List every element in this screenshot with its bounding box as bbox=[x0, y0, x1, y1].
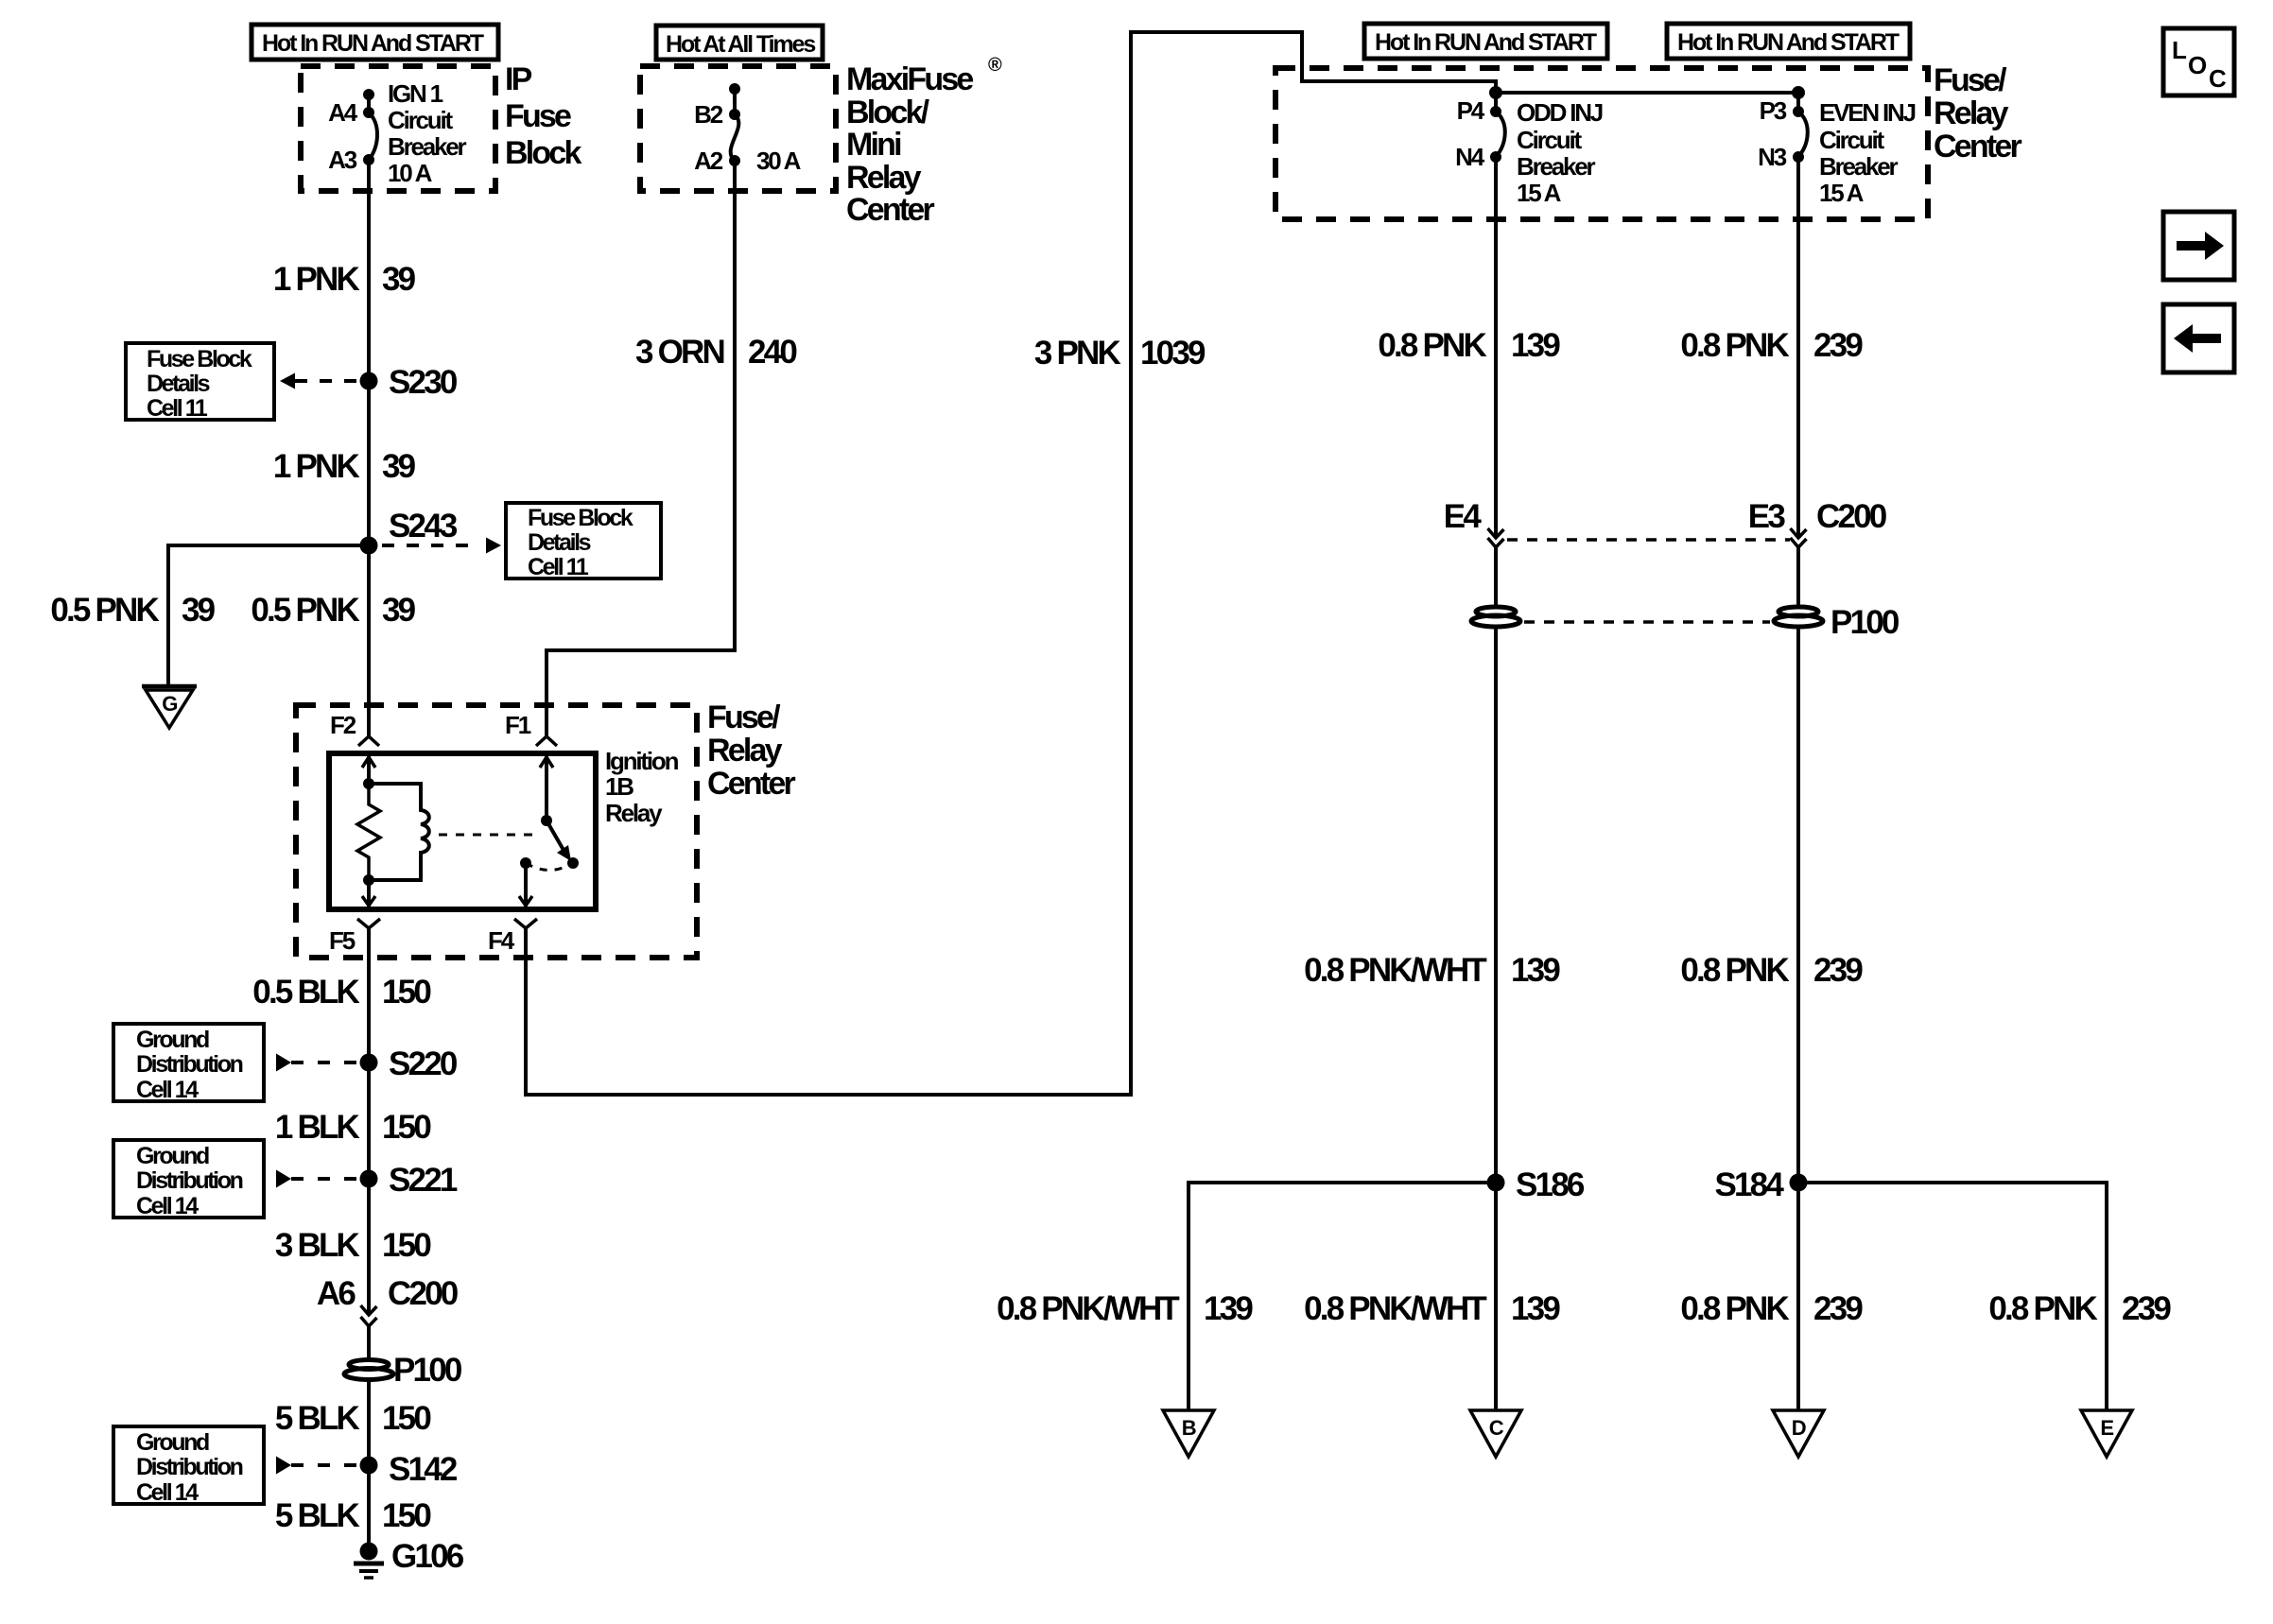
svg-text:Block/: Block/ bbox=[846, 95, 930, 130]
svg-text:Fuse Block: Fuse Block bbox=[528, 505, 633, 531]
reference box Ground Distribution Cell 14 (S142) bbox=[113, 1426, 264, 1506]
svg-text:L: L bbox=[2172, 36, 2187, 64]
svg-text:1039: 1039 bbox=[1140, 335, 1206, 371]
dashed grommet tie P100 bbox=[1524, 620, 1770, 624]
svg-text:150: 150 bbox=[382, 1109, 431, 1146]
svg-text:150: 150 bbox=[382, 1400, 431, 1437]
svg-text:139: 139 bbox=[1511, 1290, 1560, 1327]
wire E4 to P100 bbox=[1494, 547, 1498, 608]
svg-text:15 A: 15 A bbox=[1819, 179, 1865, 207]
svg-text:G: G bbox=[162, 692, 177, 716]
svg-text:Cell 14: Cell 14 bbox=[136, 1193, 199, 1219]
wire P100 to S142 bbox=[367, 1379, 371, 1465]
wire A3 to S230 bbox=[367, 160, 371, 381]
wire F2 into relay with up arrow bbox=[362, 753, 375, 784]
grommet P100 (even) bbox=[1774, 604, 1900, 641]
svg-text:F2: F2 bbox=[330, 711, 356, 739]
MaxiFuse Block / Mini Relay Center dashed outline bbox=[640, 66, 836, 191]
svg-text:IP: IP bbox=[505, 61, 532, 97]
svg-text:Fuse/: Fuse/ bbox=[707, 700, 781, 735]
dashed connector tie C200 bbox=[1507, 538, 1790, 542]
svg-text:®: ® bbox=[988, 55, 1002, 76]
svg-text:3 BLK: 3 BLK bbox=[275, 1227, 360, 1264]
node coil top junction bbox=[363, 778, 374, 789]
header box: Hot In RUN And START (Even Inj) bbox=[1667, 24, 1910, 59]
header box: Hot At All Times (MaxiFuse) bbox=[656, 26, 823, 60]
svg-text:Ignition: Ignition bbox=[605, 747, 679, 775]
svg-text:P4: P4 bbox=[1457, 96, 1485, 125]
svg-text:150: 150 bbox=[382, 1497, 431, 1534]
wire switch to F4 with down arrow bbox=[519, 863, 532, 909]
node S243 bbox=[360, 508, 458, 555]
svg-text:39: 39 bbox=[382, 261, 416, 298]
node odd breaker feed junction bbox=[1489, 86, 1502, 99]
wire N4 to E4 connector bbox=[1494, 157, 1498, 538]
wire label 0.8 PNK/WHT 139 (B) bbox=[997, 1290, 1253, 1327]
svg-text:239: 239 bbox=[1813, 952, 1863, 989]
svg-text:F5: F5 bbox=[329, 926, 356, 955]
node S220 bbox=[360, 1045, 458, 1082]
svg-text:Ground: Ground bbox=[136, 1143, 209, 1169]
svg-text:F4: F4 bbox=[488, 926, 515, 955]
svg-text:E4: E4 bbox=[1444, 498, 1483, 535]
svg-text:39: 39 bbox=[382, 448, 416, 485]
svg-text:N3: N3 bbox=[1758, 143, 1787, 171]
wire N3 to E3 connector bbox=[1796, 157, 1800, 538]
svg-text:E3: E3 bbox=[1748, 498, 1786, 535]
wire S221 to C200 bbox=[367, 1179, 371, 1315]
svg-text:E: E bbox=[2100, 1416, 2113, 1440]
svg-text:B2: B2 bbox=[694, 100, 723, 129]
node coil bottom junction bbox=[363, 874, 374, 886]
dashed arrow S230 to Fuse Block Details bbox=[280, 373, 359, 389]
label Fuse/ Relay Center (right) bbox=[1934, 62, 2021, 164]
node even breaker feed bbox=[1792, 86, 1805, 99]
svg-text:0.8 PNK: 0.8 PNK bbox=[1680, 952, 1789, 989]
off-page triangle B bbox=[1163, 1410, 1214, 1457]
wire junction to even breaker bbox=[1496, 91, 1798, 95]
wire label 1 PNK 39 bbox=[273, 261, 416, 298]
svg-text:Relay: Relay bbox=[605, 799, 663, 827]
svg-text:C200: C200 bbox=[388, 1275, 459, 1312]
switch contact (right) bbox=[567, 857, 579, 869]
svg-text:5 BLK: 5 BLK bbox=[275, 1400, 360, 1437]
svg-text:B: B bbox=[1182, 1416, 1196, 1440]
node S221 bbox=[360, 1162, 458, 1199]
svg-text:0.8 PNK: 0.8 PNK bbox=[1680, 1290, 1789, 1327]
svg-text:S142: S142 bbox=[389, 1451, 458, 1488]
svg-text:S230: S230 bbox=[389, 364, 458, 401]
svg-text:S221: S221 bbox=[389, 1162, 458, 1199]
svg-text:150: 150 bbox=[382, 974, 431, 1011]
svg-text:Cell 11: Cell 11 bbox=[528, 554, 589, 580]
legend LOC box bbox=[2163, 28, 2234, 95]
switch contact (left, F4) bbox=[520, 857, 531, 869]
switch common contact bbox=[541, 815, 552, 826]
svg-text:Ground: Ground bbox=[136, 1027, 209, 1053]
legend left-arrow box bbox=[2163, 304, 2234, 372]
svg-text:D: D bbox=[1792, 1416, 1806, 1440]
svg-text:P3: P3 bbox=[1760, 96, 1787, 125]
svg-text:A4: A4 bbox=[328, 98, 358, 127]
wire label 0.8 PNK 239 (E) bbox=[1988, 1290, 2171, 1327]
off-page triangle C bbox=[1470, 1410, 1521, 1457]
svg-text:Circuit: Circuit bbox=[1819, 126, 1884, 154]
svg-text:1B: 1B bbox=[605, 772, 633, 801]
svg-text:Mini: Mini bbox=[846, 127, 901, 163]
connector C200 chevrons (E3) bbox=[1791, 528, 1807, 547]
reference box Ground Distribution Cell 14 (S221) bbox=[113, 1140, 264, 1219]
svg-text:C: C bbox=[1489, 1416, 1504, 1440]
svg-text:Distribution: Distribution bbox=[136, 1051, 243, 1078]
legend right-arrow box bbox=[2163, 212, 2234, 280]
node S230 bbox=[360, 364, 458, 401]
switch blade with arrowhead bbox=[547, 821, 571, 861]
dashed arrow S221 reference bbox=[276, 1170, 359, 1188]
svg-text:F1: F1 bbox=[505, 711, 531, 739]
svg-text:0.8 PNK: 0.8 PNK bbox=[1680, 327, 1789, 364]
svg-text:Hot In RUN And START: Hot In RUN And START bbox=[1677, 29, 1900, 56]
svg-text:A2: A2 bbox=[694, 147, 723, 175]
svg-text:Relay: Relay bbox=[846, 160, 922, 196]
wire S142 to G106 bbox=[367, 1465, 371, 1551]
svg-text:0.5 BLK: 0.5 BLK bbox=[252, 974, 359, 1011]
wire S184 to D bbox=[1796, 1183, 1800, 1410]
Fuse/Relay Center dashed outline (relay) bbox=[296, 705, 697, 958]
svg-text:Center: Center bbox=[707, 766, 795, 802]
svg-text:EVEN INJ: EVEN INJ bbox=[1819, 98, 1916, 127]
svg-text:30 A: 30 A bbox=[756, 147, 802, 175]
svg-text:10 A: 10 A bbox=[388, 159, 433, 187]
off-page triangle E bbox=[2081, 1410, 2132, 1457]
node S186 bbox=[1487, 1166, 1585, 1203]
ground G106 bbox=[354, 1538, 464, 1578]
svg-text:MaxiFuse: MaxiFuse bbox=[846, 61, 973, 97]
node S184 bbox=[1714, 1166, 1807, 1203]
svg-text:Circuit: Circuit bbox=[1517, 126, 1582, 154]
svg-text:S184: S184 bbox=[1714, 1166, 1784, 1203]
svg-text:Fuse/: Fuse/ bbox=[1934, 62, 2007, 98]
svg-text:N4: N4 bbox=[1455, 143, 1485, 171]
svg-text:1 BLK: 1 BLK bbox=[275, 1109, 360, 1146]
header box: Hot In RUN And START (IP Fuse Block) bbox=[252, 25, 498, 60]
svg-text:Center: Center bbox=[1934, 129, 2021, 164]
dashed arrow S220 reference bbox=[276, 1054, 359, 1072]
svg-text:S220: S220 bbox=[389, 1045, 458, 1082]
grommet P100 (left) bbox=[344, 1352, 462, 1389]
wire label 0.8 PNK 139 bbox=[1378, 327, 1560, 364]
reference box Ground Distribution Cell 14 (S220) bbox=[113, 1024, 264, 1103]
reference box Fuse Block Details Cell 11 (left) bbox=[126, 343, 274, 422]
wire P100 to S186 bbox=[1494, 626, 1498, 1183]
svg-text:39: 39 bbox=[382, 592, 416, 629]
svg-text:Center: Center bbox=[846, 192, 934, 228]
svg-text:0.8 PNK: 0.8 PNK bbox=[1988, 1290, 2097, 1327]
svg-text:G106: G106 bbox=[391, 1538, 464, 1575]
value label IGN 1 Circuit Breaker 10 A bbox=[388, 79, 467, 187]
wire label 0.8 PNK 239 bbox=[1680, 952, 1863, 989]
svg-text:239: 239 bbox=[2122, 1290, 2171, 1327]
connector chevron F5 bbox=[357, 919, 380, 928]
svg-text:0.8 PNK/WHT: 0.8 PNK/WHT bbox=[1304, 952, 1486, 989]
svg-text:150: 150 bbox=[382, 1227, 431, 1264]
wire label 0.5 BLK 150 bbox=[252, 974, 431, 1011]
svg-text:Relay: Relay bbox=[707, 733, 783, 769]
svg-text:0.8 PNK/WHT: 0.8 PNK/WHT bbox=[1304, 1290, 1486, 1327]
svg-text:Cell 14: Cell 14 bbox=[136, 1479, 199, 1506]
ground triangle G bbox=[142, 686, 197, 728]
connector chevron F4 bbox=[514, 919, 537, 928]
svg-text:Relay: Relay bbox=[1934, 95, 2009, 131]
wire F1 into relay with up arrow bbox=[540, 753, 553, 821]
circuit breaker ODD INJ (15 A) bbox=[1490, 93, 1505, 163]
svg-text:Distribution: Distribution bbox=[136, 1167, 243, 1194]
svg-text:39: 39 bbox=[182, 592, 216, 629]
svg-text:Details: Details bbox=[147, 371, 210, 397]
svg-text:139: 139 bbox=[1511, 952, 1560, 989]
wire A2 to F1 (3 ORN 240) bbox=[547, 161, 735, 735]
svg-text:Hot At All Times: Hot At All Times bbox=[666, 31, 815, 58]
svg-text:Breaker: Breaker bbox=[1517, 152, 1596, 181]
connector chevron F1 bbox=[536, 736, 557, 746]
wire P100 to S184 bbox=[1796, 626, 1800, 1183]
svg-text:Breaker: Breaker bbox=[1819, 152, 1899, 181]
svg-text:Block: Block bbox=[505, 135, 581, 171]
dashed arrow S142 reference bbox=[276, 1457, 359, 1475]
value label EVEN INJ Circuit Breaker 15 A bbox=[1819, 98, 1916, 207]
svg-text:P100: P100 bbox=[393, 1352, 462, 1389]
wire S186 branch to B bbox=[1189, 1183, 1496, 1410]
svg-text:O: O bbox=[2188, 51, 2207, 79]
pin A6 / connector C200 label bbox=[317, 1275, 459, 1312]
wire label 1 BLK 150 bbox=[275, 1109, 431, 1146]
wire S186 to C bbox=[1494, 1183, 1498, 1410]
svg-text:IGN 1: IGN 1 bbox=[388, 79, 443, 108]
wire E3 to P100 bbox=[1796, 547, 1800, 608]
svg-text:15 A: 15 A bbox=[1517, 179, 1562, 207]
dashed actuation link bbox=[439, 834, 541, 837]
IP Fuse Block dashed outline bbox=[301, 66, 495, 191]
wire label 0.8 PNK/WHT 139 bbox=[1304, 952, 1560, 989]
wire S243 to relay F2 bbox=[367, 545, 371, 735]
svg-text:Breaker: Breaker bbox=[388, 132, 467, 161]
wire C200 to P100 bbox=[367, 1326, 371, 1361]
label Ignition 1B Relay bbox=[605, 747, 679, 827]
svg-text:A6: A6 bbox=[317, 1275, 356, 1312]
svg-text:1 PNK: 1 PNK bbox=[273, 448, 360, 485]
dashed travel arc bbox=[526, 863, 573, 871]
svg-text:Cell 14: Cell 14 bbox=[136, 1077, 199, 1103]
svg-text:Distribution: Distribution bbox=[136, 1454, 243, 1480]
label MaxiFuse (R) Block/ Mini Relay Center bbox=[846, 55, 1002, 228]
svg-text:Hot In RUN And START: Hot In RUN And START bbox=[262, 30, 484, 57]
svg-text:Details: Details bbox=[528, 529, 591, 556]
wire label 5 BLK 150 bbox=[275, 1400, 431, 1437]
svg-text:Fuse: Fuse bbox=[505, 98, 571, 134]
wire label 0.8 PNK/WHT 139 (C) bbox=[1304, 1290, 1560, 1327]
wire label 0.8 PNK 239 (D) bbox=[1680, 1290, 1863, 1327]
connector chevron F2 bbox=[358, 736, 379, 746]
wire label 0.5 PNK 39 (ground branch) bbox=[50, 592, 215, 629]
svg-text:3 PNK: 3 PNK bbox=[1034, 335, 1121, 371]
connector C200 chevrons (E4) bbox=[1488, 528, 1504, 547]
wire label 0.8 PNK 239 bbox=[1680, 327, 1863, 364]
header box: Hot In RUN And START (Odd Inj) bbox=[1364, 24, 1607, 59]
svg-text:P100: P100 bbox=[1831, 604, 1900, 641]
svg-text:239: 239 bbox=[1813, 1290, 1863, 1327]
svg-text:0.8 PNK/WHT: 0.8 PNK/WHT bbox=[997, 1290, 1179, 1327]
label IP Fuse Block bbox=[505, 61, 581, 171]
svg-text:C200: C200 bbox=[1816, 498, 1887, 535]
svg-text:3 ORN: 3 ORN bbox=[635, 334, 723, 371]
svg-text:ODD INJ: ODD INJ bbox=[1517, 98, 1603, 127]
svg-text:Circuit: Circuit bbox=[388, 106, 453, 134]
dashed arrow S243 to Fuse Block Details bbox=[382, 538, 501, 554]
svg-text:Hot In RUN And START: Hot In RUN And START bbox=[1375, 29, 1597, 56]
wire label 1 PNK 39 bbox=[273, 448, 416, 485]
svg-text:139: 139 bbox=[1204, 1290, 1253, 1327]
svg-text:239: 239 bbox=[1813, 327, 1863, 364]
wire label 3 BLK 150 bbox=[275, 1227, 431, 1264]
connector C200 double chevron bbox=[361, 1305, 377, 1326]
wire coil bottom to F5 with down arrow bbox=[362, 880, 375, 909]
svg-text:5 BLK: 5 BLK bbox=[275, 1497, 360, 1534]
fuse MaxiFuse 30 A bbox=[729, 83, 740, 166]
coil (relay) bbox=[369, 784, 429, 880]
off-page triangle D bbox=[1773, 1410, 1824, 1457]
svg-text:0.8 PNK: 0.8 PNK bbox=[1378, 327, 1486, 364]
resistor (relay) bbox=[357, 784, 380, 880]
svg-text:0.5 PNK: 0.5 PNK bbox=[50, 592, 159, 629]
circuit breaker EVEN INJ (15 A) bbox=[1793, 93, 1808, 163]
wire label 5 BLK 150 bbox=[275, 1497, 431, 1534]
wire S230 to S243 bbox=[367, 381, 371, 545]
wire S184 branch to E bbox=[1798, 1183, 2107, 1410]
wire label 3 ORN 240 bbox=[635, 334, 797, 371]
wire S220 to S221 bbox=[367, 1063, 371, 1179]
svg-text:139: 139 bbox=[1511, 327, 1560, 364]
wire F4 to odd injector breaker (3 PNK 1039 loop) bbox=[526, 32, 1496, 1095]
label Fuse/ Relay Center (relay box) bbox=[707, 700, 795, 802]
svg-text:C: C bbox=[2209, 64, 2227, 93]
svg-text:S186: S186 bbox=[1516, 1166, 1585, 1203]
svg-text:Ground: Ground bbox=[136, 1429, 209, 1456]
circuit breaker IGN 1 (10 A) bbox=[363, 89, 377, 165]
wire S243 to ground branch bbox=[168, 545, 369, 686]
svg-text:1 PNK: 1 PNK bbox=[273, 261, 360, 298]
reference box Fuse Block Details Cell 11 (right) bbox=[506, 503, 661, 580]
value label ODD INJ Circuit Breaker 15 A bbox=[1517, 98, 1603, 207]
svg-text:Cell 11: Cell 11 bbox=[147, 395, 208, 422]
wire label 0.5 PNK 39 (main) bbox=[251, 592, 415, 629]
relay Ignition 1B Relay box bbox=[329, 753, 596, 909]
Fuse/Relay Center dashed outline (injector breakers) bbox=[1275, 68, 1928, 219]
wire label 3 PNK 1039 bbox=[1034, 335, 1206, 371]
grommet P100 (odd) bbox=[1471, 607, 1520, 627]
wire F5 to S220 bbox=[367, 928, 371, 1063]
node S142 bbox=[360, 1451, 458, 1488]
svg-text:S243: S243 bbox=[389, 508, 458, 544]
svg-text:Fuse Block: Fuse Block bbox=[147, 346, 252, 372]
svg-text:240: 240 bbox=[748, 334, 797, 371]
svg-text:A3: A3 bbox=[328, 146, 357, 174]
svg-text:0.5 PNK: 0.5 PNK bbox=[251, 592, 359, 629]
